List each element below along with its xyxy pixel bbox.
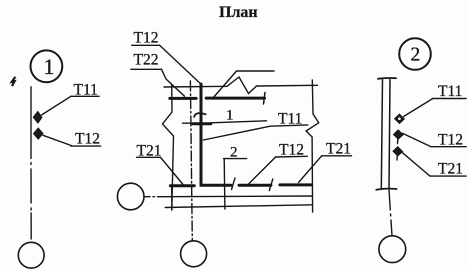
svg-text:1: 1	[44, 54, 55, 79]
svg-text:T11: T11	[438, 83, 462, 100]
svg-text:1: 1	[226, 107, 234, 123]
svg-text:T12: T12	[134, 30, 159, 47]
svg-text:T12: T12	[279, 141, 304, 158]
svg-text:2: 2	[411, 45, 421, 66]
svg-text:План: План	[219, 4, 258, 21]
svg-text:T21: T21	[438, 160, 463, 177]
svg-text:T22: T22	[134, 52, 159, 69]
svg-text:T12: T12	[438, 131, 463, 148]
svg-text:T21: T21	[326, 140, 351, 157]
svg-text:T12: T12	[75, 130, 100, 147]
